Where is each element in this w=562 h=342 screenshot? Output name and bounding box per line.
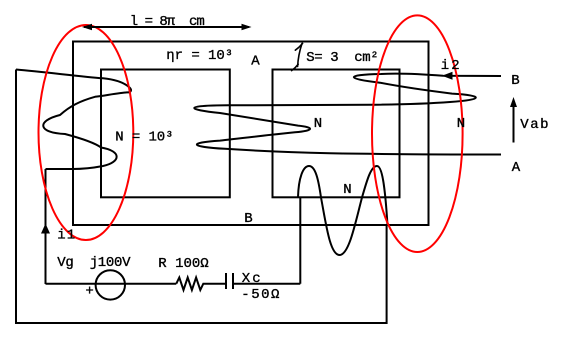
svg-text:A: A <box>251 54 260 70</box>
svg-text:A: A <box>512 160 521 176</box>
svg-text:+: + <box>85 284 93 300</box>
svg-text:S= 3 cm²: S= 3 cm² <box>306 50 378 66</box>
svg-text:N: N <box>314 116 322 132</box>
svg-text:N: N <box>343 182 351 198</box>
svg-text:B: B <box>511 73 519 89</box>
svg-text:Vab: Vab <box>520 117 550 133</box>
svg-text:l = 8π cm: l = 8π cm <box>130 14 205 30</box>
svg-text:Xc: Xc <box>242 271 263 287</box>
svg-text:B: B <box>244 211 252 227</box>
svg-text:-50Ω: -50Ω <box>241 287 281 303</box>
svg-text:i1: i1 <box>57 228 76 244</box>
svg-text:ηr = 10³: ηr = 10³ <box>166 48 233 64</box>
svg-text:N = 10³: N = 10³ <box>115 130 173 146</box>
svg-text:N: N <box>457 116 465 132</box>
svg-text:R 100Ω: R 100Ω <box>158 256 208 272</box>
svg-text:Vg j100V: Vg j100V <box>57 255 131 271</box>
svg-text:i2: i2 <box>441 58 462 74</box>
